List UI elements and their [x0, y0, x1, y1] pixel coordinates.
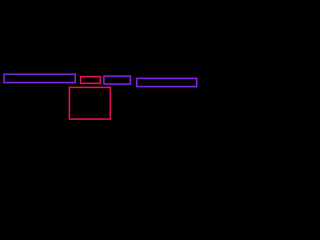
- node box1 left purple bar: [4, 74, 75, 82]
- wireframe overlay canvas: [0, 0, 200, 200]
- node box3 middle purple box: [104, 76, 130, 84]
- node box5 large red box: [69, 87, 110, 119]
- node box4 right purple bar: [137, 78, 197, 86]
- node box2 small red box: [81, 77, 101, 84]
